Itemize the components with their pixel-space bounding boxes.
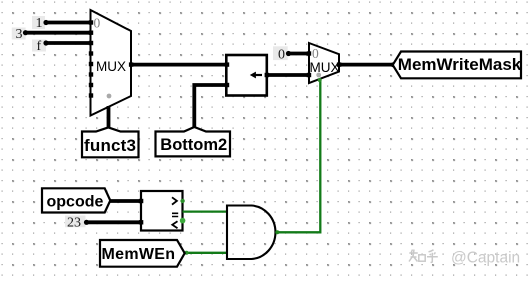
wire comparator eq output to AND gate (183, 210, 228, 212)
watermark 知乎 @Captain (409, 250, 438, 263)
svg-text:MUX: MUX (96, 59, 126, 74)
mux U1 input pins (89, 20, 93, 97)
svg-text:0: 0 (312, 46, 319, 61)
shifter input pins (225, 62, 229, 87)
mux U1 output pin (129, 62, 133, 66)
tunnel funct3 (82, 127, 139, 157)
tunnel Bottom2 (156, 127, 231, 156)
svg-text:0: 0 (94, 15, 101, 30)
wire 0 to mux U3 input (286, 51, 309, 56)
svg-text:f: f (37, 39, 42, 54)
wire Bottom2 tunnel to shifter lower input (194, 85, 227, 127)
svg-text:MUX: MUX (310, 60, 340, 75)
comparator input pins (139, 199, 143, 225)
shifter output pin (265, 73, 269, 77)
svg-text:0: 0 (278, 47, 285, 62)
constant label f (32, 39, 46, 54)
constant label 3 (12, 27, 26, 42)
svg-text:Bottom2: Bottom2 (160, 136, 227, 154)
wire MUX U1 output to shifter (131, 63, 227, 67)
svg-text:MemWriteMask: MemWriteMask (398, 55, 522, 74)
wire from 3 to MUX U1 input (23, 30, 91, 35)
tunnel MemWriteMask (393, 52, 522, 79)
comparator output pins (green) (180, 199, 186, 224)
mux U3 (2-input, right) (309, 43, 340, 83)
wire AND output to mux U3 select (green) (275, 78, 321, 234)
tunnel MemWEn (100, 240, 185, 267)
wire 23 to comparator (84, 220, 141, 225)
mux U3 output pin (337, 62, 341, 66)
constant label 23 (65, 215, 86, 230)
mux U3 input pins (307, 51, 311, 77)
mux U1 (8-input, left) (91, 10, 132, 116)
svg-text:funct3: funct3 (84, 136, 136, 155)
wire MemWEn to AND gate (185, 252, 227, 254)
wire mux U3 output to MemWriteMask (339, 63, 394, 67)
AND gate U5 (227, 206, 275, 260)
wire from f to MUX U1 input (43, 40, 91, 45)
shifter U2 (226, 55, 266, 96)
constant label 1 (32, 16, 45, 31)
wire from 1 to MUX U1 input (43, 20, 91, 25)
wire opcode to comparator (110, 199, 141, 203)
wire MUX U1 select to funct3 tunnel (107, 106, 111, 129)
comparator U4 (141, 191, 183, 231)
constant label 0 (273, 46, 288, 62)
svg-text:opcode: opcode (47, 194, 104, 211)
svg-text:1: 1 (36, 16, 43, 31)
svg-text:23: 23 (67, 215, 81, 230)
svg-text:@Captain: @Captain (451, 249, 520, 266)
svg-text:MemWEn: MemWEn (102, 246, 176, 263)
wire shifter output to mux U3 (267, 73, 309, 77)
svg-text:3: 3 (16, 27, 23, 42)
tunnel opcode (42, 188, 110, 212)
